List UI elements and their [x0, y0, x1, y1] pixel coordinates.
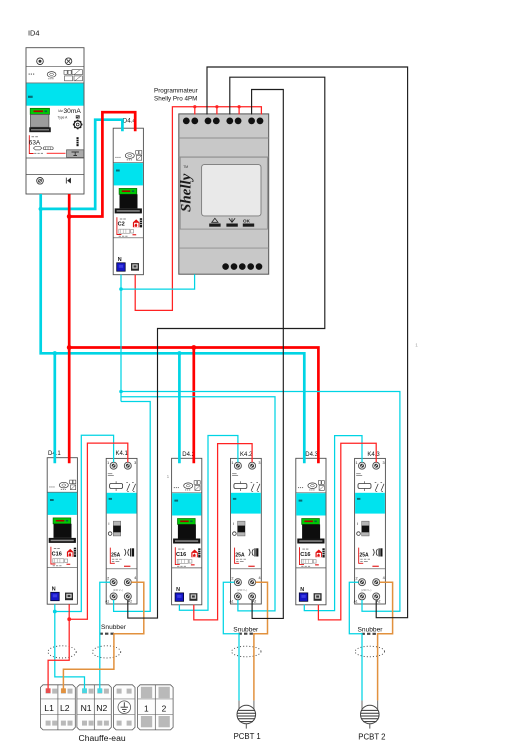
- svg-text:C2: C2: [118, 222, 125, 228]
- svg-text:L1: L1: [44, 703, 54, 713]
- wire end lug red at terminal L1: [46, 688, 51, 693]
- wire end lug cyan at terminal N1: [82, 688, 87, 693]
- terminal block Chauffe-eau group N1 N2: [77, 685, 111, 730]
- svg-text:Programmateur: Programmateur: [154, 88, 198, 95]
- wire D4.3 neutral loop to K4.3 input 1: [304, 436, 362, 611]
- wire end lug cyan at terminal N2: [98, 688, 103, 693]
- svg-text:K4.2: K4.2: [240, 452, 253, 458]
- junction node cyan bus / D4.2: [177, 351, 181, 355]
- cable sheath ellipse (PCBT 2): [355, 646, 384, 657]
- wire Shelly supply stub pin L2: [216, 107, 218, 115]
- svg-text:1: 1: [144, 704, 149, 714]
- wire D4.1 phase loop to K4.1 input 3: [69, 443, 128, 619]
- breaker D4.4: [113, 128, 143, 275]
- svg-text:C16: C16: [176, 552, 186, 558]
- wire end lug orange at terminal L2: [61, 688, 66, 693]
- junction node cyan Shelly neutral branch: [119, 287, 123, 291]
- snubber S2: [239, 633, 255, 635]
- wire K4.2 output 4 to PCBT 1 (orange): [254, 582, 268, 700]
- snubber S3: [362, 633, 379, 635]
- breaker D4.3: [296, 458, 326, 605]
- cable sheath ellipse (chauffe-eau L1/N1): [48, 646, 76, 658]
- wire neutral bus tap to D4.2: [178, 353, 181, 463]
- junction node red bus / D4.1 riser: [67, 345, 72, 350]
- wire D4.1 neutral out, junction: [55, 604, 85, 690]
- svg-text:Snubber: Snubber: [233, 627, 259, 634]
- wire phase bus, drop to D4.3: [69, 348, 318, 464]
- breaker D4.2: [172, 458, 202, 605]
- junction node cyan at ID4 neutral split: [39, 207, 43, 211]
- wire Shelly neutral branch to Shelly bottom terminal: [121, 274, 195, 289]
- wire Shelly supply phase from D4.4 output: [135, 107, 261, 311]
- wire D4.1 phase out to terminal L1: [48, 604, 69, 690]
- wire coil neutral rail to K4.1 A1: [114, 402, 151, 612]
- junction node red Shelly pin L1: [193, 105, 196, 108]
- wire D4.1 neutral loop to K4.1 input 1: [55, 435, 114, 611]
- svg-text:C16: C16: [300, 552, 310, 558]
- svg-text:Shelly: Shelly: [179, 173, 195, 212]
- svg-text:1: 1: [415, 343, 418, 348]
- breaker D4.1: [47, 458, 77, 605]
- wire Shelly neutral from D4.4 N and coil-neutral riser: [120, 275, 122, 392]
- wire D4.2 phase loop to K4.2 input 3: [194, 444, 252, 620]
- svg-text:Snubber: Snubber: [358, 627, 384, 634]
- junction node red D4.1 phase out: [67, 617, 71, 621]
- wire K4.1 output 4 to terminal L2 (orange): [63, 582, 143, 690]
- wire K4.2 output 2 to PCBT 1 (cyan): [223, 582, 239, 700]
- wire K4.1 output 2 to terminal N2: [100, 582, 110, 690]
- svg-text:ID4: ID4: [28, 29, 40, 38]
- contactor K4.1: [105, 458, 137, 604]
- wire Shelly supply stub pin L1: [194, 107, 196, 115]
- contactor K4.3: [354, 458, 386, 604]
- svg-text:TM: TM: [183, 165, 188, 169]
- svg-text:L2: L2: [60, 703, 70, 713]
- svg-text:Type A: Type A: [58, 116, 69, 120]
- svg-text:30mA: 30mA: [64, 108, 82, 115]
- wire coil neutral rail vertical: [120, 392, 122, 402]
- svg-text:N2: N2: [96, 703, 107, 713]
- svg-text:D4.3: D4.3: [305, 452, 318, 458]
- svg-text:Shelly Pro 4PM: Shelly Pro 4PM: [154, 96, 197, 103]
- wire phase bus tap to D4.2: [192, 348, 195, 464]
- wire neutral branch ID4 junction to D4.4 input: [41, 120, 123, 209]
- snubber S1: [100, 633, 115, 635]
- junction node red at ID4 phase split: [67, 214, 72, 219]
- wire phase branch ID4 junction to D4.4 input: [69, 112, 135, 216]
- svg-text:Chauffe-eau: Chauffe-eau: [79, 733, 126, 743]
- wire coil neutral rail to K4.2 A1: [121, 397, 275, 611]
- RCD breaker ID4: [26, 48, 84, 194]
- svg-text:K4.3: K4.3: [367, 452, 380, 458]
- svg-text:N1: N1: [81, 703, 92, 713]
- svg-text:OK: OK: [243, 218, 251, 223]
- wire neutral (cyan) ID4 down, neutral bus, drop to D4.3: [41, 194, 305, 463]
- wire D4.2 neutral loop to K4.2 input 1: [179, 436, 238, 611]
- junction node cyan D4.1 neutral out: [53, 610, 57, 614]
- ground symbol: [118, 701, 131, 714]
- cable sheath ellipse (PCBT 1): [232, 646, 261, 657]
- wire phase (red) ID4 down through phase bus to D4.1: [68, 194, 71, 463]
- terminal block Chauffe-eau ground terminal: [114, 685, 136, 730]
- wire neutral bus tap to D4.1: [53, 353, 56, 463]
- wire Shelly output O3 (black) to K4.2 coil A2: [252, 90, 284, 619]
- junction node red Shelly pin L2: [215, 105, 218, 108]
- svg-text:Snubber: Snubber: [101, 624, 127, 631]
- junction node red Shelly pin L3: [238, 105, 241, 108]
- wire K4.3 output 4 to PCBT 2 (orange): [378, 582, 393, 700]
- junction node red bus / D4.2: [191, 345, 196, 350]
- terminal block Chauffe-eau group L1 L2: [40, 685, 75, 730]
- cable sheath ellipse (chauffe-eau L2/N2): [93, 646, 121, 658]
- wire Shelly supply stub pin L3: [238, 107, 240, 115]
- wire Shelly output O2 (black) to K4.1 coil A2: [128, 77, 325, 618]
- junction node cyan bus / D4.1: [53, 351, 57, 355]
- svg-text:PCBT 2: PCBT 2: [358, 733, 385, 742]
- svg-text:1: 1: [167, 474, 170, 479]
- terminal block Chauffe-eau group 1 2: [138, 685, 174, 730]
- wire K4.3 output 2 to PCBT 2 (cyan): [349, 582, 362, 700]
- junction node cyan coil neutral rail: [119, 390, 123, 394]
- wire D4.3 phase loop to K4.3 input 3: [318, 443, 376, 620]
- wire coil neutral rail to K4.3 A1: [121, 392, 400, 612]
- wire Shelly output O1 (black) to K4.3 coil A2: [207, 67, 408, 618]
- svg-text:63A: 63A: [29, 140, 41, 147]
- svg-text:PCBT 1: PCBT 1: [234, 732, 261, 741]
- svg-text:2: 2: [162, 704, 167, 714]
- programmer U1 Shelly Pro 4PM: [179, 114, 269, 274]
- heating cable PCBT 2: [361, 700, 380, 728]
- svg-text:K4.1: K4.1: [116, 451, 129, 457]
- heating cable PCBT 1: [237, 700, 256, 728]
- contactor K4.2: [230, 458, 262, 604]
- svg-text:C16: C16: [52, 551, 62, 557]
